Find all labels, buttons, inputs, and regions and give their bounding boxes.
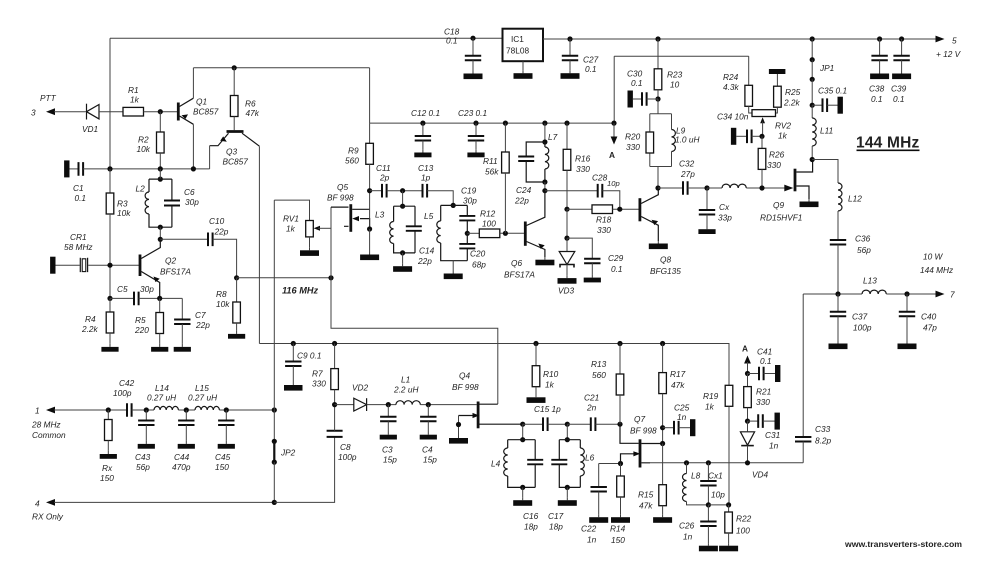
inductor L2 <box>136 179 172 227</box>
resistor R10 1k <box>527 341 559 403</box>
node R2 bottom <box>158 166 163 171</box>
transistor Q7 BF998 <box>620 414 663 468</box>
svg-text:100: 100 <box>482 219 496 229</box>
wire JP1 to C35 <box>811 79 813 105</box>
wire collector line to C28 <box>545 190 598 192</box>
svg-text:R14: R14 <box>610 524 626 534</box>
ground Q6 emitter <box>535 257 554 265</box>
node C21/R13/Q7gate <box>617 422 622 427</box>
svg-text:Q3: Q3 <box>226 147 237 157</box>
node C9 <box>291 341 296 346</box>
svg-text:RV2: RV2 <box>775 121 791 131</box>
resistor R24 4.3k <box>723 56 753 113</box>
wire R1 to base node <box>144 111 178 113</box>
node C40 <box>904 291 909 296</box>
node R14/gate2 <box>618 461 623 466</box>
svg-text:R15: R15 <box>638 490 654 500</box>
node C43 top <box>144 407 149 412</box>
svg-text:VD3: VD3 <box>558 286 575 296</box>
node 116MHz line left <box>234 275 239 280</box>
svg-text:0.1: 0.1 <box>611 264 623 274</box>
svg-text:R18: R18 <box>596 215 612 225</box>
diode VD3 <box>558 238 577 295</box>
node R7/VD2/C8 <box>332 402 337 407</box>
wire L6 tank stub <box>566 424 568 440</box>
inductor L14 0.27uH <box>147 383 178 410</box>
svg-text:Cx1: Cx1 <box>708 471 723 481</box>
wire to VD2 <box>335 404 354 406</box>
resistor R21 330 <box>744 374 772 422</box>
wire Q5 gate bus x331 <box>330 207 332 278</box>
svg-text:JP1: JP1 <box>819 63 834 73</box>
svg-text:A: A <box>742 344 748 354</box>
capacitor C6 30p <box>164 179 199 227</box>
wire Q5 drain/source vertical <box>369 191 371 229</box>
trimmer RV1 1k <box>283 214 331 256</box>
svg-text:100p: 100p <box>338 452 357 462</box>
svg-text:100p: 100p <box>853 323 872 333</box>
resistor R19 1k <box>703 385 733 505</box>
resistor R17 47k <box>659 341 686 444</box>
node R23 top <box>655 36 660 41</box>
svg-text:C44: C44 <box>174 452 190 462</box>
svg-text:R21: R21 <box>756 387 771 397</box>
svg-text:100p: 100p <box>113 388 132 398</box>
node pin5 +12V <box>936 36 962 60</box>
node base Q1 <box>158 109 163 114</box>
svg-text:0.1: 0.1 <box>585 64 597 74</box>
wire output line y294 <box>803 293 862 295</box>
node C18 <box>470 36 475 41</box>
svg-text:R5: R5 <box>135 315 146 325</box>
wire Q1 emitter down <box>192 124 194 169</box>
inductor feed coil <box>707 184 785 188</box>
svg-text:15p: 15p <box>423 455 437 465</box>
svg-text:144 MHz: 144 MHz <box>920 265 954 275</box>
node C35 <box>810 103 815 108</box>
svg-text:R17: R17 <box>670 369 686 379</box>
svg-text:C24: C24 <box>516 185 532 195</box>
inductor L4 <box>491 440 535 488</box>
inductor L12 <box>838 183 862 240</box>
capacitor C8 100p <box>327 405 357 462</box>
svg-text:R24: R24 <box>723 72 739 82</box>
capacitor C34 10n <box>717 112 762 145</box>
resistor R14 150 <box>610 464 630 546</box>
svg-text:2.2k: 2.2k <box>783 98 801 108</box>
svg-text:0.27 uH: 0.27 uH <box>147 393 176 403</box>
svg-text:C12 0.1: C12 0.1 <box>411 108 440 118</box>
capacitor C42 100p <box>113 378 135 417</box>
node C34/R26 <box>759 134 764 139</box>
node L4 tank bottom <box>520 485 525 490</box>
svg-text:R9: R9 <box>348 146 359 156</box>
capacitor C45 150 <box>215 410 235 472</box>
node C39 <box>899 36 904 41</box>
node Q7 drain <box>660 441 665 446</box>
svg-text:BFS17A: BFS17A <box>160 267 191 277</box>
resistor R6 47k <box>230 68 259 130</box>
svg-text:3: 3 <box>31 108 36 118</box>
wire line y56 <box>614 55 749 57</box>
svg-text:L2: L2 <box>136 184 146 194</box>
svg-text:VD2: VD2 <box>352 383 369 393</box>
node CR1/bus <box>107 263 112 268</box>
svg-text:C35 0.1: C35 0.1 <box>818 86 847 96</box>
svg-text:10 W: 10 W <box>923 252 944 262</box>
wire Q7 gate line <box>599 464 621 488</box>
svg-text:22p: 22p <box>214 227 229 237</box>
capacitor C25 1n <box>663 403 696 437</box>
capacitor C30 0.1 <box>627 69 658 108</box>
node Q5 source <box>367 226 372 231</box>
node L11/Q9/L12 <box>810 157 815 162</box>
svg-text:1p: 1p <box>421 173 431 183</box>
svg-text:VD1: VD1 <box>82 124 98 134</box>
svg-text:4.3k: 4.3k <box>723 82 740 92</box>
capacitor C35 0.1 <box>812 86 847 114</box>
svg-text:150: 150 <box>611 535 625 545</box>
wire top rail right <box>543 38 937 40</box>
svg-text:C43: C43 <box>135 452 151 462</box>
node Cx1 top <box>706 460 711 465</box>
svg-text:+ 12 V: + 12 V <box>936 49 962 59</box>
svg-text:RX Only: RX Only <box>32 512 64 522</box>
svg-text:C28: C28 <box>592 173 608 183</box>
resistor R1 1k <box>123 85 144 116</box>
wire C11 to C13 <box>387 190 423 192</box>
svg-text:47k: 47k <box>246 108 260 118</box>
svg-text:C20: C20 <box>470 249 486 259</box>
svg-text:BC857: BC857 <box>223 157 249 167</box>
wire tank to collector node <box>544 182 546 191</box>
svg-text:C39: C39 <box>891 84 907 94</box>
node L5 tank top <box>451 203 456 208</box>
resistor R12 100 <box>467 209 524 238</box>
inductor L1 2.2uH <box>393 375 477 405</box>
resistor R23 10 <box>654 39 682 99</box>
node R19/R22 <box>726 502 731 507</box>
jumper JP2 <box>272 439 296 465</box>
svg-text:L11: L11 <box>820 126 833 136</box>
svg-text:R6: R6 <box>245 99 256 109</box>
svg-text:R20: R20 <box>625 132 641 142</box>
label 144 MHz title <box>856 135 920 152</box>
svg-text:C27: C27 <box>583 55 599 65</box>
svg-text:1n: 1n <box>769 441 779 451</box>
wire R20/L9 bracket <box>650 99 672 188</box>
wire A bus x614 <box>613 56 615 123</box>
svg-text:C4: C4 <box>422 445 433 455</box>
svg-text:L4: L4 <box>491 459 501 469</box>
capacitor C5 30p <box>107 284 182 305</box>
svg-text:R19: R19 <box>703 391 719 401</box>
svg-text:C41: C41 <box>757 347 772 357</box>
svg-text:560: 560 <box>592 370 606 380</box>
svg-text:R22: R22 <box>736 514 752 524</box>
svg-text:15p: 15p <box>383 455 397 465</box>
node R11 bottom <box>503 231 508 236</box>
node L6 tank top <box>565 437 570 442</box>
svg-text:C38: C38 <box>869 84 885 94</box>
diode VD1 <box>82 104 99 134</box>
transistor Q4 BF998 <box>449 371 523 444</box>
svg-text:C10: C10 <box>209 216 225 226</box>
wire VD2 to L1 <box>367 404 396 406</box>
node L7 tank bottom <box>542 179 547 184</box>
node 116MHz line right <box>328 275 333 280</box>
node A junction <box>611 121 616 126</box>
svg-text:Q8: Q8 <box>660 255 671 265</box>
capacitor C33 8.2p <box>795 424 832 463</box>
svg-text:R12: R12 <box>480 209 496 219</box>
capacitor C18 0.1 <box>444 27 483 80</box>
capacitor C9 0.1 <box>284 344 321 391</box>
node Rx top <box>106 407 111 412</box>
inductor L6 <box>580 440 594 488</box>
svg-text:150: 150 <box>215 462 229 472</box>
svg-text:RV1: RV1 <box>283 214 299 224</box>
svg-text:C15 1p: C15 1p <box>534 404 561 414</box>
svg-text:BFG135: BFG135 <box>650 266 681 276</box>
svg-text:1k: 1k <box>705 402 715 412</box>
resistor R15 47k <box>638 444 672 523</box>
svg-text:1k: 1k <box>130 95 140 105</box>
capacitor C21 2n <box>567 393 620 432</box>
node VD4 bottom <box>745 460 750 465</box>
wire drain node to L12 <box>812 160 838 184</box>
node pin7 output <box>936 290 956 300</box>
capacitor C41 0.1 <box>748 347 781 383</box>
svg-text:10k: 10k <box>216 299 230 309</box>
capacitor C11 2p <box>370 163 391 198</box>
svg-text:18p: 18p <box>524 522 538 532</box>
svg-text:0.1: 0.1 <box>893 94 905 104</box>
wire RX line to C8 <box>274 437 334 502</box>
svg-text:VD4: VD4 <box>752 470 769 480</box>
capacitor C17 18p <box>548 440 580 532</box>
node L8 top <box>684 460 689 465</box>
svg-text:18p: 18p <box>549 522 563 532</box>
svg-text:A: A <box>609 150 615 160</box>
svg-text:C21: C21 <box>584 393 599 403</box>
wire gate bus down to Q4 drain <box>331 278 498 404</box>
svg-text:C13: C13 <box>418 163 434 173</box>
svg-text:Cx: Cx <box>719 202 730 212</box>
node Q6 collector <box>542 188 547 193</box>
svg-text:R16: R16 <box>575 154 591 164</box>
node C3 <box>386 402 391 407</box>
trimmer RV2 1k <box>752 110 791 141</box>
wire C1 line <box>83 168 210 170</box>
net A down arrow <box>609 123 617 160</box>
wire C13 to L5 tank <box>427 191 453 206</box>
wire C42 to L14 <box>132 409 154 411</box>
svg-text:5: 5 <box>952 36 957 46</box>
svg-text:30p: 30p <box>463 196 477 206</box>
svg-text:10k: 10k <box>137 144 151 154</box>
svg-text:C7: C7 <box>195 310 206 320</box>
capacitor C28 10p <box>592 173 620 198</box>
svg-text:22p: 22p <box>514 196 529 206</box>
transistor Q6 BFS17A <box>504 191 545 280</box>
resistor R22 100 <box>719 505 752 551</box>
svg-text:C29: C29 <box>608 253 624 263</box>
svg-text:330: 330 <box>767 160 781 170</box>
svg-text:www.transverters-store.com: www.transverters-store.com <box>844 539 962 549</box>
svg-text:33p: 33p <box>718 213 732 223</box>
svg-text:L6: L6 <box>585 453 595 463</box>
svg-text:56p: 56p <box>857 245 871 255</box>
wire L15 to JP2 bus <box>219 409 274 411</box>
capacitor C43 56p <box>135 410 155 472</box>
svg-text:0.1: 0.1 <box>75 193 87 203</box>
svg-text:330: 330 <box>576 164 590 174</box>
wire VD3 stub <box>566 209 568 238</box>
svg-text:1n: 1n <box>587 535 597 545</box>
node JP1 top <box>810 36 815 41</box>
node C15/C17 tank <box>565 422 570 427</box>
capacitor C26 1n <box>679 505 718 551</box>
capacitor C19 30p <box>459 186 477 234</box>
capacitor C3 15p <box>380 405 398 465</box>
svg-text:C42: C42 <box>119 378 135 388</box>
svg-text:CR1: CR1 <box>70 232 87 242</box>
capacitor C20 68p <box>459 233 486 269</box>
node R9 bottom / C11 <box>367 188 372 193</box>
node R7 <box>332 341 337 346</box>
wire second rail y68 <box>193 67 369 69</box>
resistor R26 330 <box>758 136 784 188</box>
diode VD4 <box>740 421 768 479</box>
node L12/C37 <box>835 291 840 296</box>
svg-text:R4: R4 <box>85 314 96 324</box>
wire tank stub <box>159 169 161 179</box>
capacitor C40 47p <box>898 294 938 349</box>
svg-text:47k: 47k <box>671 380 685 390</box>
svg-text:150: 150 <box>100 473 114 483</box>
node L7 tank feed <box>542 121 547 126</box>
svg-text:Q1: Q1 <box>196 97 207 107</box>
svg-text:L15: L15 <box>195 383 209 393</box>
resistor R16 330 <box>563 121 590 210</box>
resistor R5 220 <box>134 298 168 351</box>
node L3 tank top <box>400 204 405 209</box>
svg-text:BF 998: BF 998 <box>327 193 354 203</box>
node Q1 emitter <box>191 166 196 171</box>
node R26 bottom <box>759 185 764 190</box>
svg-text:C36: C36 <box>855 234 871 244</box>
node Q2 collector <box>158 237 163 242</box>
node Q4 source/C15 <box>520 422 525 427</box>
svg-text:0.1: 0.1 <box>760 356 772 366</box>
capacitor C32 27p <box>655 159 707 195</box>
capacitor C14 22p <box>406 206 435 266</box>
node L8/Cx1 bottom <box>706 502 711 507</box>
inductor L15 0.27uH <box>188 383 219 410</box>
svg-text:C45: C45 <box>215 452 231 462</box>
svg-text:28 MHz: 28 MHz <box>31 420 61 430</box>
svg-text:R7: R7 <box>312 369 323 379</box>
svg-text:BF 998: BF 998 <box>452 382 479 392</box>
svg-text:220: 220 <box>134 325 149 335</box>
svg-text:Rx: Rx <box>102 463 113 473</box>
svg-text:R8: R8 <box>216 289 227 299</box>
capacitor C44 470p <box>172 410 195 472</box>
svg-text:C16: C16 <box>523 511 539 521</box>
svg-text:IC1: IC1 <box>511 34 524 44</box>
wire output line y462 <box>645 462 803 464</box>
resistor R18 330 <box>567 205 639 235</box>
svg-text:10k: 10k <box>117 208 131 218</box>
svg-text:1: 1 <box>35 406 40 416</box>
capacitor C31 1n <box>748 413 781 451</box>
wire RV1 top feed <box>274 200 309 220</box>
svg-text:C6: C6 <box>184 187 195 197</box>
wire L14 to L15 <box>178 409 195 411</box>
inductor L7 <box>545 132 558 182</box>
wire left vertical bus <box>109 38 111 312</box>
svg-text:C25: C25 <box>674 403 690 413</box>
resistor R13 560 <box>591 341 624 424</box>
wire bottom link to R22 <box>708 504 728 506</box>
svg-text:L14: L14 <box>155 383 169 393</box>
node L6 tank bottom <box>565 485 570 490</box>
svg-text:BFS17A: BFS17A <box>504 270 535 280</box>
capacitor C12 0.1 <box>411 108 440 157</box>
wire x369 from rail2 corner <box>369 68 371 123</box>
resistor R7 330 <box>312 344 338 405</box>
jumper JP1 <box>810 39 835 82</box>
node 28MHz/bus junction <box>272 407 277 412</box>
wire top +12V rail left <box>110 37 503 39</box>
svg-text:7: 7 <box>950 290 955 300</box>
svg-text:C31: C31 <box>765 430 780 440</box>
svg-text:0.1: 0.1 <box>631 78 643 88</box>
svg-text:C9 0.1: C9 0.1 <box>297 351 321 361</box>
svg-text:0.1: 0.1 <box>446 36 458 46</box>
wire L4 tank stub <box>522 424 524 440</box>
ground L5 tank <box>444 261 463 279</box>
svg-text:330: 330 <box>756 397 770 407</box>
wire Q3 collector down long <box>258 146 260 343</box>
svg-text:560: 560 <box>345 156 359 166</box>
capacitor C29 0.1 <box>567 238 624 282</box>
ground Q5 <box>360 252 379 260</box>
svg-text:1n: 1n <box>683 532 693 542</box>
svg-text:C19: C19 <box>461 186 477 196</box>
capacitor C16 18p <box>523 440 543 532</box>
svg-text:BF 998: BF 998 <box>630 426 657 436</box>
capacitor C38 0.1 <box>869 39 889 104</box>
transistor Q1 BC857 <box>178 97 218 125</box>
svg-text:1k: 1k <box>545 380 555 390</box>
svg-text:30p: 30p <box>140 284 154 294</box>
transistor Q2 BFS17A <box>140 239 191 298</box>
node L3 tank bottom <box>400 250 405 255</box>
wire Q5 source to ground <box>369 229 371 252</box>
svg-text:10: 10 <box>670 80 680 90</box>
capacitor Cx 33p <box>698 188 732 234</box>
node C25 tap <box>660 425 665 430</box>
svg-text:PTT: PTT <box>40 93 57 103</box>
capacitor C13 1p <box>418 163 434 198</box>
node C27 <box>567 36 572 41</box>
resistor R9 560 <box>345 123 373 191</box>
node net A right <box>742 344 751 374</box>
node R21/C31/VD4 <box>745 419 750 424</box>
capacitor C7 22p <box>174 298 211 351</box>
